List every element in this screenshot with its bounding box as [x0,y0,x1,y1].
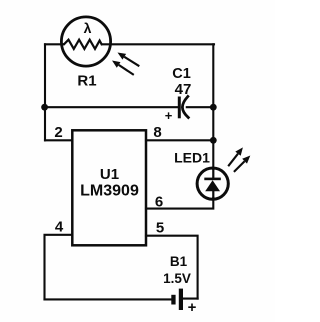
wire pin 2 [45,139,72,141]
svg-text:LM3909: LM3909 [80,183,139,200]
svg-text:U1: U1 [100,166,119,183]
LED1 circle [197,168,228,199]
svg-text:+: + [165,108,173,123]
svg-text:C1: C1 [172,66,191,82]
svg-text:47: 47 [175,81,192,98]
svg-text:LED1: LED1 [174,150,210,166]
wire pin 5 [146,236,198,299]
resistor zigzag of R1 [62,40,102,49]
photoresistor R1 [61,17,110,66]
svg-text:+: + [188,299,197,316]
wire pin 4 [45,235,73,300]
node junction dot left C1 [41,104,48,111]
svg-text:R1: R1 [77,73,96,90]
wire LED to pin 6 [146,198,213,209]
capacitor C1 plates [178,98,181,117]
svg-text:1.5V: 1.5V [163,271,191,286]
svg-text:λ: λ [84,20,92,36]
LED1 internal symbol [204,169,221,199]
wire left vertical (top rail to pin 2) [44,44,46,140]
svg-text:4: 4 [55,219,64,236]
svg-text:8: 8 [153,124,161,141]
wire right vertical (top rail to LED) [212,44,214,169]
svg-text:B1: B1 [170,254,188,269]
svg-text:2: 2 [54,124,62,141]
node junction dot right C1 [210,104,217,111]
wire C1 line [45,106,213,108]
wire bottom rail [45,298,198,301]
svg-text:5: 5 [156,220,164,237]
arrows out of LED1 [228,154,244,172]
battery B1 plates [171,289,183,310]
svg-text:6: 6 [155,194,163,211]
wire pin 8 [146,139,213,141]
arrows into R1 (light) [119,57,140,75]
node junction dot pin 8 [210,137,217,144]
wire top rail [45,43,214,45]
op-amp U1 IC body [72,130,146,245]
